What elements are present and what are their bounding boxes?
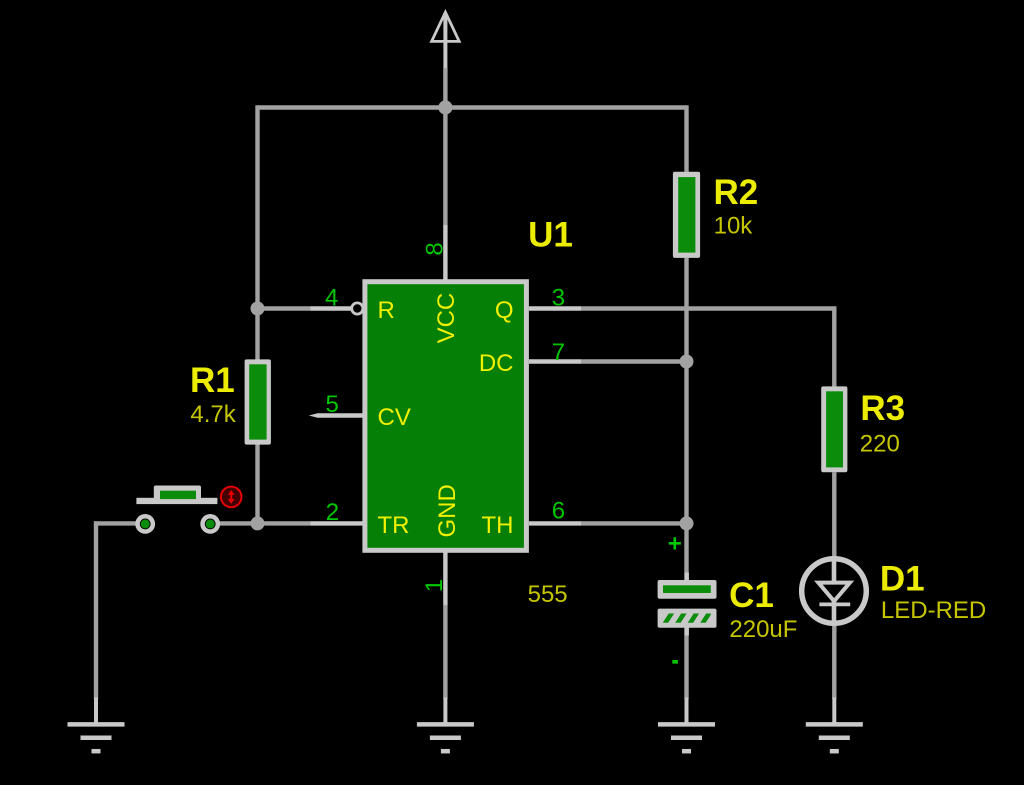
svg-text:VCC: VCC (433, 293, 460, 344)
svg-text:10k: 10k (714, 213, 754, 240)
svg-text:3: 3 (552, 285, 565, 312)
svg-text:5: 5 (326, 391, 339, 418)
svg-text:7: 7 (552, 339, 565, 366)
svg-text:R2: R2 (714, 173, 759, 212)
svg-text:6: 6 (552, 498, 565, 525)
svg-text:GND: GND (434, 484, 461, 537)
svg-text:8: 8 (422, 242, 449, 255)
svg-text:TH: TH (482, 512, 514, 539)
svg-text:DC: DC (479, 350, 514, 377)
svg-text:U1: U1 (528, 215, 573, 254)
svg-text:220: 220 (860, 430, 900, 457)
svg-text:1: 1 (421, 579, 448, 592)
svg-text:C1: C1 (729, 576, 774, 615)
svg-text:CV: CV (378, 404, 411, 431)
svg-text:+: + (668, 531, 682, 558)
svg-text:LED-RED: LED-RED (881, 597, 986, 624)
svg-text:D1: D1 (880, 559, 925, 598)
svg-text:4: 4 (325, 285, 338, 312)
svg-text:220uF: 220uF (729, 616, 797, 643)
svg-text:Q: Q (495, 297, 514, 324)
svg-text:TR: TR (378, 512, 410, 539)
svg-text:4.7k: 4.7k (190, 401, 236, 428)
svg-text:2: 2 (326, 499, 339, 526)
svg-text:555: 555 (528, 581, 568, 608)
svg-text:R1: R1 (190, 361, 235, 400)
svg-text:R: R (378, 297, 395, 324)
svg-text:R3: R3 (860, 389, 905, 428)
